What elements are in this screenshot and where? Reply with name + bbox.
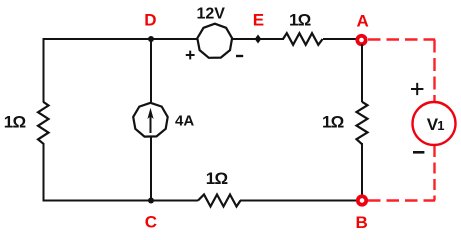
wire dashed red right vertical upper bbox=[433, 40, 435, 102]
node A (terminal) bbox=[357, 12, 369, 45]
wire dashed red right vertical lower bbox=[433, 146, 435, 201]
resistor 1ohm top bbox=[283, 10, 323, 45]
svg-text:1Ω: 1Ω bbox=[289, 10, 311, 29]
wire resistor to node A bbox=[323, 38, 356, 40]
wire right vertical upper (A to resistor) bbox=[361, 44, 363, 102]
node B (terminal) bbox=[356, 196, 368, 232]
wire right vertical lower (resistor to B) bbox=[361, 143, 363, 196]
resistor 1ohm left bbox=[4, 102, 49, 144]
current source 4A bbox=[133, 103, 194, 137]
wire left vertical lower bbox=[43, 143, 45, 202]
node C bbox=[145, 198, 157, 232]
svg-text:B: B bbox=[356, 213, 368, 232]
svg-text:1Ω: 1Ω bbox=[4, 113, 26, 132]
svg-text:1: 1 bbox=[437, 118, 444, 133]
voltage source 12V bbox=[186, 6, 243, 60]
svg-text:4A: 4A bbox=[175, 113, 194, 130]
resistor 1ohm right bbox=[322, 102, 368, 144]
node E bbox=[253, 11, 264, 44]
wire node D to 12V source bbox=[151, 38, 198, 40]
wire bottom from left corner to node C bbox=[43, 200, 151, 202]
wire middle vertical lower (current source to C) bbox=[150, 136, 152, 201]
svg-text:A: A bbox=[357, 12, 369, 31]
wire left vertical upper bbox=[43, 38, 45, 103]
svg-text:D: D bbox=[144, 11, 156, 30]
wire dashed red from bottom-right corner to B bbox=[368, 199, 435, 201]
svg-text:1Ω: 1Ω bbox=[322, 113, 344, 132]
wire top from left corner to node D bbox=[44, 38, 152, 40]
svg-text:E: E bbox=[253, 11, 264, 30]
plus sign of V1 bbox=[411, 83, 423, 95]
wire dashed red from A to top-right corner bbox=[368, 38, 435, 40]
wire node C to bottom resistor bbox=[151, 200, 198, 202]
svg-text:12V: 12V bbox=[197, 6, 226, 23]
wire middle vertical upper (D to current source) bbox=[150, 39, 152, 104]
resistor 1ohm bottom bbox=[198, 169, 241, 206]
minus sign of V1 bbox=[413, 151, 424, 154]
svg-text:C: C bbox=[145, 213, 157, 232]
wire bottom resistor to node B bbox=[240, 200, 356, 202]
wire 12V source to resistor, through node E bbox=[232, 38, 284, 40]
svg-text:1Ω: 1Ω bbox=[206, 169, 228, 188]
voltage source V1 bbox=[413, 102, 456, 145]
node D bbox=[144, 11, 156, 43]
